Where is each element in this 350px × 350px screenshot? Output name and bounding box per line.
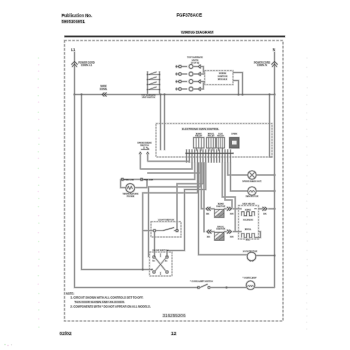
label speed bake switch xyxy=(137,142,152,148)
bake solenoid coil xyxy=(242,212,255,216)
wire valve to N xyxy=(269,208,275,210)
wire broil row b xyxy=(224,231,227,233)
label bake conn WH xyxy=(230,214,234,216)
label gas valve xyxy=(242,203,255,206)
svg-text:IGNITOR: IGNITOR xyxy=(216,206,225,208)
svg-text:FGF378ACE: FGF378ACE xyxy=(177,13,202,18)
svg-text:ELECTRONIC OVEN CONTROL: ELECTRONIC OVEN CONTROL xyxy=(182,128,220,131)
label spark module xyxy=(218,72,228,81)
wire sensor row xyxy=(121,178,147,180)
junction door feed xyxy=(81,94,83,96)
relay K1 bake xyxy=(194,132,205,151)
junction lamp wire xyxy=(226,287,228,289)
wire broil to valve xyxy=(233,231,242,233)
svg-text:UNITS: UNITS xyxy=(192,60,199,62)
connector bake left xyxy=(206,207,210,211)
power cord connector N xyxy=(272,62,278,67)
svg-text:IGNITOR: IGNITOR xyxy=(216,229,225,231)
junction right drop xyxy=(269,94,271,96)
label door switch xyxy=(153,250,169,252)
wire lamp to N xyxy=(255,287,275,289)
svg-text:BROIL: BROIL xyxy=(208,133,215,135)
wire valve out xyxy=(259,208,264,210)
header rule xyxy=(65,35,286,37)
oven lamp switch xyxy=(197,284,210,288)
wire harness to broil right xyxy=(222,163,235,232)
wire to speed bake sw left xyxy=(140,163,192,170)
wire N drop xyxy=(274,52,276,95)
svg-text:WH: WH xyxy=(230,214,234,216)
oven temperature probe xyxy=(126,184,135,193)
label broil conn WH xyxy=(230,236,234,238)
wire spark module out bottom xyxy=(233,81,239,95)
wire harness to bake right xyxy=(225,163,232,209)
wire bake row a xyxy=(210,208,215,210)
oven lamp xyxy=(246,281,255,290)
svg-text:SWITCH: SWITCH xyxy=(140,145,149,147)
label top surface unit switch xyxy=(141,94,156,99)
wire bake to valve xyxy=(233,208,242,210)
wire connector on bus xyxy=(102,93,106,97)
junction N bus xyxy=(274,94,276,96)
gas valve box xyxy=(239,206,259,240)
speed bake switch symbol xyxy=(141,147,149,150)
wire sensor loop xyxy=(121,179,147,187)
connector broil right xyxy=(227,230,231,234)
svg-text:SOL.: SOL. xyxy=(246,240,251,242)
text: Publication No. xyxy=(62,13,92,24)
label wire connector xyxy=(100,86,108,91)
wire fan motor feed xyxy=(231,163,248,192)
label sensor wire 1 xyxy=(124,180,133,182)
EOC box xyxy=(156,124,272,158)
label power cord conn L1 xyxy=(78,62,94,67)
label light switch xyxy=(158,220,174,222)
connector valve right xyxy=(263,207,267,211)
svg-text:MODULE: MODULE xyxy=(218,79,228,81)
label broil ignitor xyxy=(216,226,225,230)
wire to sensor row xyxy=(147,163,195,180)
svg-text:WIRE: WIRE xyxy=(101,86,107,88)
text part number xyxy=(163,313,186,318)
connector bake right xyxy=(227,207,231,211)
svg-text:WH: WH xyxy=(230,236,234,238)
wire valve internal bake xyxy=(242,209,257,214)
wire harness spare left xyxy=(148,163,201,174)
light switch box xyxy=(151,222,181,237)
wire speed bake left leg xyxy=(139,154,141,169)
scan artifacts xyxy=(4,57,308,346)
svg-text:DOOR SWITCH: DOOR SWITCH xyxy=(153,250,169,252)
svg-text:POWER CORD: POWER CORD xyxy=(78,62,94,64)
wire lamp switch to lamp xyxy=(210,287,246,289)
wire speed bake motor feed xyxy=(228,163,248,176)
wire L1 bus xyxy=(75,94,275,96)
svg-text:WIRING DIAGRAM: WIRING DIAGRAM xyxy=(181,29,214,34)
label speed bake motor xyxy=(242,180,262,183)
junction L1 bus xyxy=(74,94,76,96)
wire L1 left vertical xyxy=(75,95,199,288)
label electronic oven control xyxy=(182,128,220,131)
label broil coil xyxy=(245,229,252,231)
wire to door top left xyxy=(149,163,201,258)
sensor terminal 2 xyxy=(140,178,142,180)
wire right drop to EOC xyxy=(270,95,273,158)
light switch contacts xyxy=(153,228,178,232)
lock motor xyxy=(247,252,256,261)
sensor terminal 1 xyxy=(121,178,123,180)
svg-text:BROIL: BROIL xyxy=(218,226,225,228)
junction light feed xyxy=(142,269,144,271)
label lock motor xyxy=(243,251,258,253)
wire lock motor feed xyxy=(199,163,248,255)
text: WIRING DIAGRAM xyxy=(181,29,214,34)
note text xyxy=(66,292,151,309)
door switch contacts xyxy=(153,254,169,276)
spark module box xyxy=(205,71,233,85)
speed bake switch terminals xyxy=(139,152,149,154)
label bake conn BK xyxy=(206,214,209,216)
svg-text:PNK C/M: PNK C/M xyxy=(124,180,133,182)
broil ignitor element xyxy=(215,232,225,240)
label temperature probe xyxy=(123,193,139,198)
wire door feed vertical xyxy=(82,95,153,270)
EOC harness connector bundle xyxy=(186,150,234,163)
text: model FGF378ACE xyxy=(177,13,202,18)
svg-text:SOLENOID: SOLENOID xyxy=(243,219,254,221)
dashed border frame xyxy=(65,41,284,322)
wire EOC feed 2 xyxy=(164,95,166,151)
junction sb motor N xyxy=(274,174,276,176)
label top surface units xyxy=(187,56,203,64)
svg-text:IGNITION: IGNITION xyxy=(218,76,228,78)
node N xyxy=(273,48,276,52)
wires rows to spark module xyxy=(201,67,205,90)
svg-text:UNIT SWITCH: UNIT SWITCH xyxy=(142,97,156,99)
label oven lamp switch xyxy=(190,280,213,283)
label valve conn BK xyxy=(264,214,267,216)
wire to light switch left xyxy=(143,163,198,270)
svg-text:XFMR: XFMR xyxy=(231,133,237,135)
svg-text:316255206: 316255206 xyxy=(163,313,186,318)
wire tap light switch left xyxy=(143,230,153,232)
wire L1 drop xyxy=(74,52,76,95)
junction EOC feeds xyxy=(160,94,166,96)
wire speed bake motor to N xyxy=(256,174,274,176)
svg-text:L1: L1 xyxy=(71,48,75,52)
label oven lamp xyxy=(243,276,257,279)
wire lock motor to N xyxy=(256,255,275,257)
transformer block xyxy=(230,133,240,148)
junction valve N xyxy=(274,208,276,210)
broil solenoid coil xyxy=(242,234,255,238)
svg-text:CONN. N: CONN. N xyxy=(257,65,267,67)
svg-text:PNK C/M: PNK C/M xyxy=(144,180,153,182)
relay K2 broil xyxy=(207,133,216,151)
label broil sol xyxy=(246,240,251,242)
svg-text:BROIL: BROIL xyxy=(245,229,252,231)
wire to light switch right xyxy=(177,163,203,231)
connector broil left xyxy=(207,230,211,234)
bake ignitor element xyxy=(215,209,225,217)
text date 02/02 xyxy=(60,331,72,337)
text page 12 xyxy=(171,331,177,337)
wire bake ignitor feed xyxy=(201,163,204,209)
wire bake row b xyxy=(224,208,227,210)
junction fan motor N xyxy=(274,190,276,192)
wire N bus down xyxy=(274,95,276,288)
surface unit ignitor switches xyxy=(176,65,201,92)
svg-text:Publication No.: Publication No. xyxy=(62,13,92,18)
power cord connector L1 xyxy=(72,62,78,67)
svg-text:CONN. L1: CONN. L1 xyxy=(81,65,92,67)
label bake ignitor xyxy=(216,203,225,208)
fan motor xyxy=(248,187,256,195)
wire EOC feed 1 xyxy=(160,95,162,151)
wire broil return xyxy=(255,232,261,238)
svg-text:12: 12 xyxy=(171,331,177,337)
wire speed bake right leg xyxy=(147,154,149,161)
wire to door top right xyxy=(167,163,206,258)
svg-text:CONN.: CONN. xyxy=(100,89,108,91)
door switch box xyxy=(150,252,173,276)
wire to speed bake sw right xyxy=(148,161,190,162)
wire light sw to door sw xyxy=(154,232,156,257)
svg-text:02/02: 02/02 xyxy=(60,331,72,337)
label fan motor xyxy=(246,195,259,198)
label bake coil xyxy=(245,209,251,212)
node L1 xyxy=(71,48,75,52)
label power cord conn N xyxy=(254,62,270,67)
relay K3 dlb xyxy=(217,133,225,151)
svg-text:LIGHT SWITCH: LIGHT SWITCH xyxy=(158,220,174,222)
label broil conn BK xyxy=(207,236,210,238)
wire broil ignitor feed xyxy=(203,163,206,232)
wire spark module out top xyxy=(233,73,243,95)
wire fan motor to N xyxy=(256,190,274,192)
switch bank: top surface unit switches xyxy=(147,72,161,95)
svg-text:DLB: DLB xyxy=(218,133,223,135)
svg-text:POWER CORD: POWER CORD xyxy=(254,62,270,64)
label bake sol xyxy=(243,219,254,221)
svg-text:PROBE: PROBE xyxy=(127,196,135,198)
speed bake motor xyxy=(248,171,256,179)
junction spark outs xyxy=(238,94,244,96)
junction lock motor N xyxy=(274,255,276,257)
wire broil row a xyxy=(210,231,214,233)
junction door bottom xyxy=(151,269,153,271)
svg-text:5995306951: 5995306951 xyxy=(62,19,86,24)
label sensor wire 2 xyxy=(144,180,153,182)
